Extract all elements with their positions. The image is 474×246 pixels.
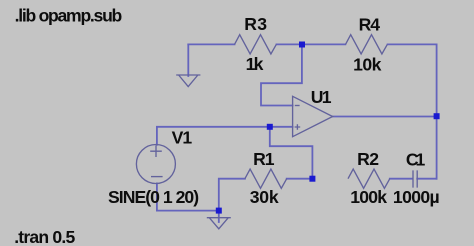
wire C1 right plate to right column xyxy=(417,178,436,180)
svg-text:.tran 0.5: .tran 0.5 xyxy=(14,227,75,246)
wire from R4 right end, down right column to C1 row xyxy=(388,44,437,178)
V1 plus mark xyxy=(150,145,162,157)
plus input node junction xyxy=(267,124,273,130)
svg-text:U1: U1 xyxy=(311,87,332,107)
wire R2 right to C1 left plate xyxy=(390,178,413,180)
svg-text:1k: 1k xyxy=(246,54,264,74)
V1 minus mark xyxy=(151,176,163,178)
wire top row left of R3 xyxy=(188,43,234,45)
op-amp U1 xyxy=(293,96,333,136)
op-amp minus pin mark xyxy=(295,105,300,107)
wire V1 bottom to bottom ground junction xyxy=(157,183,219,210)
svg-text:100k: 100k xyxy=(350,187,387,207)
svg-text:SINE(0 1 20): SINE(0 1 20) xyxy=(108,187,199,207)
wire bottom ground stub xyxy=(218,211,220,222)
ground top-left xyxy=(176,75,200,87)
voltage source V1 xyxy=(136,145,175,184)
bottom ground node junction xyxy=(216,208,222,214)
wire from plus-node junction down to R1/R2 junction xyxy=(270,127,313,179)
svg-text:R1: R1 xyxy=(253,149,275,169)
resistor R1 xyxy=(245,169,287,188)
svg-text:R3: R3 xyxy=(244,14,267,34)
resistor R3 xyxy=(235,35,277,54)
svg-text:1000µ: 1000µ xyxy=(393,187,440,207)
wire feedback from node A to op-amp minus input xyxy=(261,44,302,105)
output node junction xyxy=(434,113,440,119)
wire left ground stub xyxy=(187,44,189,76)
svg-text:C1: C1 xyxy=(406,149,426,169)
svg-text:10k: 10k xyxy=(353,54,382,74)
resistor R2 xyxy=(348,169,390,188)
svg-text:R4: R4 xyxy=(359,14,381,34)
wire op-amp output row xyxy=(333,116,437,118)
capacitor C1 xyxy=(413,170,417,187)
svg-text:R2: R2 xyxy=(357,149,379,169)
wire R1 to R2 junction xyxy=(287,178,313,180)
svg-text:30k: 30k xyxy=(250,187,279,207)
resistor R4 xyxy=(346,35,388,54)
svg-text:.lib opamp.sub: .lib opamp.sub xyxy=(15,6,123,26)
node A junction (R3/R4/feedback) xyxy=(299,42,305,48)
ground bottom xyxy=(207,218,231,229)
wire between R3 and R4 through node A xyxy=(277,43,346,45)
R1/R2 node junction xyxy=(309,176,315,182)
op-amp plus pin mark xyxy=(295,124,301,130)
wire V1 top to op-amp plus input xyxy=(157,127,293,145)
svg-text:V1: V1 xyxy=(172,127,193,147)
wire R1 left leg xyxy=(219,179,245,211)
